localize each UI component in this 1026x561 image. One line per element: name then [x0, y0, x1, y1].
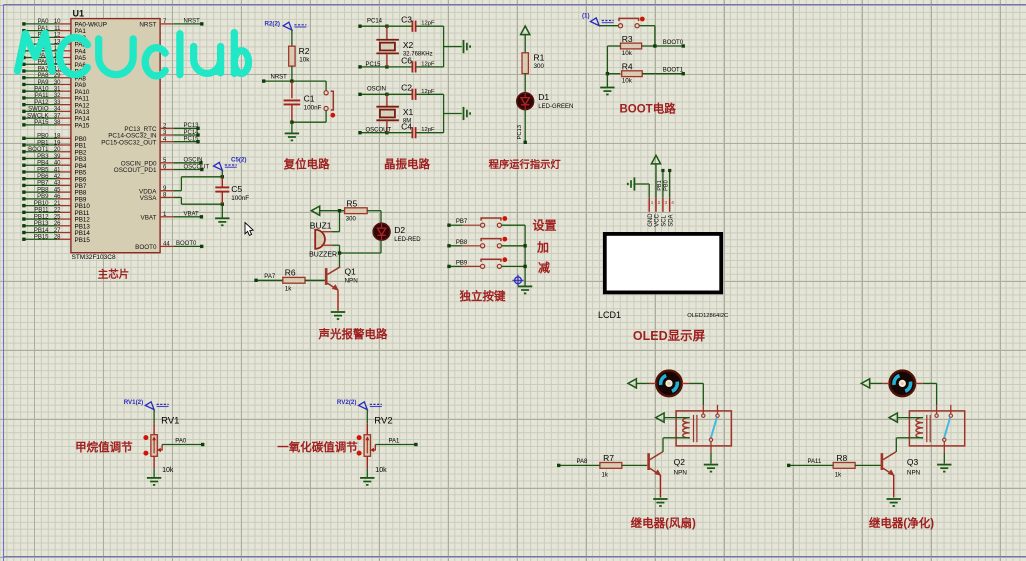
svg-text:R6: R6: [285, 267, 296, 277]
svg-text:STM32F103C8: STM32F103C8: [72, 254, 116, 261]
svg-text:SWDIO: SWDIO: [28, 107, 49, 113]
svg-text:R8: R8: [836, 453, 847, 463]
svg-text:46: 46: [54, 194, 61, 200]
svg-text:BUZ1: BUZ1: [310, 220, 332, 230]
svg-text:OSCOUT: OSCOUT: [366, 128, 392, 134]
svg-text:NPN: NPN: [907, 470, 921, 477]
svg-text:PA11: PA11: [808, 459, 822, 465]
svg-text:C6: C6: [401, 56, 412, 66]
svg-text:加: 加: [536, 239, 549, 254]
svg-text:12pF: 12pF: [421, 127, 435, 133]
svg-text:LED-GREEN: LED-GREEN: [538, 104, 573, 110]
svg-text:OLED12864I2C: OLED12864I2C: [687, 313, 728, 319]
svg-text:PB9: PB9: [456, 260, 468, 266]
svg-text:C1: C1: [304, 94, 315, 104]
svg-text:10k: 10k: [375, 467, 387, 474]
svg-text:10k: 10k: [162, 467, 174, 474]
svg-text:PA7: PA7: [264, 274, 276, 280]
svg-text:PB12: PB12: [34, 214, 49, 220]
svg-text:12pF: 12pF: [421, 61, 435, 67]
svg-text:PB6: PB6: [37, 174, 49, 180]
svg-text:10k: 10k: [622, 50, 633, 57]
svg-text:28: 28: [54, 235, 61, 241]
svg-text:22: 22: [54, 208, 61, 214]
svg-text:PC15: PC15: [184, 137, 200, 143]
svg-text:NPN: NPN: [345, 278, 359, 285]
svg-text:PB3: PB3: [37, 154, 49, 160]
svg-text:PA1: PA1: [389, 439, 401, 445]
svg-text:PC14: PC14: [184, 130, 200, 136]
svg-text:18: 18: [54, 134, 61, 140]
svg-text:PC13: PC13: [517, 125, 523, 140]
svg-text:LED-RED: LED-RED: [394, 237, 421, 243]
svg-text:PB14: PB14: [34, 228, 49, 234]
svg-text:21: 21: [54, 201, 61, 207]
svg-text:继电器(风扇): 继电器(风扇): [631, 516, 696, 530]
svg-text:D2: D2: [394, 225, 405, 235]
svg-text:BOOT0: BOOT0: [176, 241, 197, 247]
svg-text:R1: R1: [534, 52, 545, 62]
svg-text:31: 31: [54, 87, 61, 93]
svg-text:PC15: PC15: [366, 62, 382, 68]
svg-text:PB4: PB4: [37, 161, 49, 167]
svg-text:PB15: PB15: [75, 237, 91, 244]
svg-text:NRST: NRST: [184, 19, 201, 25]
svg-text:PB13: PB13: [34, 221, 49, 227]
svg-text:BOOT0: BOOT0: [135, 244, 157, 251]
svg-text:程序运行指示灯: 程序运行指示灯: [489, 158, 562, 171]
svg-text:PB8: PB8: [456, 240, 468, 246]
svg-text:PB15: PB15: [34, 235, 49, 241]
svg-text:4: 4: [671, 200, 674, 205]
svg-text:PA8: PA8: [577, 459, 589, 465]
svg-text:1k: 1k: [285, 286, 293, 293]
svg-text:40: 40: [54, 161, 61, 167]
svg-text:33: 33: [54, 100, 61, 106]
svg-text:PA11: PA11: [35, 93, 49, 99]
svg-text:R5: R5: [346, 198, 357, 208]
svg-text:43: 43: [54, 181, 61, 187]
svg-text:300: 300: [346, 217, 357, 223]
svg-text:3: 3: [665, 200, 668, 205]
svg-text:PB11: PB11: [34, 208, 49, 214]
svg-text:D1: D1: [538, 92, 549, 102]
svg-text:NPN: NPN: [674, 470, 688, 477]
svg-text:PB1: PB1: [37, 140, 49, 146]
svg-text:BOOT电路: BOOT电路: [619, 102, 676, 116]
svg-text:20: 20: [54, 147, 61, 153]
svg-text:PA12: PA12: [34, 100, 49, 106]
svg-text:PA0: PA0: [38, 19, 50, 25]
svg-text:100nF: 100nF: [231, 195, 249, 202]
svg-text:PA8: PA8: [38, 73, 50, 79]
svg-text:2: 2: [658, 200, 661, 205]
svg-text:12pF: 12pF: [421, 89, 435, 95]
svg-text:继电器(净化): 继电器(净化): [869, 516, 934, 530]
svg-text:PB8: PB8: [37, 187, 49, 193]
svg-text:PA7: PA7: [38, 66, 50, 72]
svg-text:RV2(2): RV2(2): [337, 399, 357, 406]
svg-text:VSSA: VSSA: [140, 195, 158, 202]
svg-text:PC14: PC14: [367, 18, 383, 24]
svg-text:VCC: VCC: [655, 213, 661, 226]
svg-text:独立按键: 独立按键: [460, 289, 506, 303]
svg-text:Q1: Q1: [345, 267, 357, 277]
svg-text:晶振电路: 晶振电路: [384, 157, 430, 171]
svg-text:45: 45: [54, 187, 61, 193]
svg-text:29: 29: [54, 73, 61, 79]
svg-text:Q3: Q3: [907, 457, 919, 467]
svg-text:R2(2): R2(2): [265, 20, 280, 27]
svg-text:BUZZER: BUZZER: [309, 252, 337, 259]
svg-text:PB7: PB7: [37, 181, 49, 187]
svg-text:PC15-OSC32_OUT: PC15-OSC32_OUT: [101, 139, 156, 146]
svg-text:VBAT: VBAT: [141, 214, 157, 221]
svg-text:R2: R2: [299, 46, 310, 56]
svg-text:SWCLK: SWCLK: [27, 113, 48, 119]
svg-text:25: 25: [54, 214, 61, 220]
svg-text:X1: X1: [403, 107, 414, 117]
svg-text:X2: X2: [403, 40, 414, 50]
svg-text:PB0: PB0: [664, 180, 670, 191]
svg-text:C3: C3: [401, 14, 412, 24]
svg-text:OSCOUT_PD1: OSCOUT_PD1: [114, 167, 157, 174]
svg-text:300: 300: [534, 63, 545, 70]
svg-text:LCD1: LCD1: [598, 310, 621, 320]
svg-text:PB0: PB0: [37, 134, 49, 140]
svg-text:C2: C2: [401, 82, 412, 92]
svg-text:12pF: 12pF: [421, 21, 435, 27]
svg-text:SDA: SDA: [668, 214, 674, 226]
svg-text:27: 27: [54, 228, 61, 234]
svg-text:U1: U1: [73, 9, 85, 19]
svg-text:复位电路: 复位电路: [283, 157, 330, 171]
svg-text:OSCOUT: OSCOUT: [184, 164, 210, 170]
svg-text:主芯片: 主芯片: [98, 268, 130, 281]
svg-text:减: 减: [538, 260, 550, 275]
svg-text:10: 10: [54, 19, 61, 25]
svg-text:12: 12: [54, 33, 61, 39]
svg-text:PB9: PB9: [37, 194, 49, 200]
svg-text:BOOT0: BOOT0: [663, 40, 684, 46]
svg-text:34: 34: [54, 107, 61, 113]
svg-text:26: 26: [54, 221, 61, 227]
svg-text:SCL: SCL: [662, 214, 668, 226]
svg-text:PA15: PA15: [34, 120, 49, 126]
svg-text:44: 44: [163, 242, 170, 248]
svg-text:PB10: PB10: [34, 201, 49, 207]
svg-text:37: 37: [54, 113, 61, 119]
svg-text:设置: 设置: [532, 218, 556, 233]
svg-text:PB5: PB5: [37, 167, 49, 173]
svg-text:PA15: PA15: [75, 122, 90, 129]
svg-text:R4: R4: [622, 61, 633, 71]
svg-text:一氧化碳值调节: 一氧化碳值调节: [277, 440, 358, 454]
svg-text:PC13: PC13: [184, 123, 200, 129]
svg-text:BOOT1: BOOT1: [28, 147, 49, 153]
svg-text:C5: C5: [231, 184, 242, 194]
svg-text:1: 1: [651, 200, 654, 205]
svg-text:1k: 1k: [602, 473, 609, 479]
svg-text:NRST: NRST: [139, 22, 156, 29]
svg-text:38: 38: [54, 120, 61, 126]
svg-text:19: 19: [54, 140, 61, 146]
svg-text:Q2: Q2: [674, 457, 686, 467]
svg-text:NRST: NRST: [271, 75, 288, 81]
svg-text:C4: C4: [401, 121, 412, 131]
svg-text:PA9: PA9: [38, 80, 50, 86]
svg-text:30: 30: [54, 80, 61, 86]
svg-text:39: 39: [54, 154, 61, 160]
svg-text:42: 42: [54, 174, 61, 180]
svg-text:41: 41: [54, 167, 61, 173]
svg-text:100nF: 100nF: [304, 105, 322, 112]
svg-text:甲烷值调节: 甲烷值调节: [75, 440, 133, 454]
svg-text:OSCIN: OSCIN: [184, 158, 203, 164]
svg-text:1k: 1k: [835, 473, 842, 479]
svg-text:10k: 10k: [622, 78, 633, 85]
svg-text:OLED显示屏: OLED显示屏: [633, 329, 706, 343]
svg-text:RV1: RV1: [161, 416, 179, 427]
svg-text:32: 32: [54, 93, 61, 99]
svg-text:11: 11: [54, 26, 61, 32]
svg-text:OSCIN: OSCIN: [367, 86, 386, 92]
svg-text:(1): (1): [582, 13, 590, 20]
svg-text:PA0: PA0: [175, 439, 187, 445]
svg-text:R3: R3: [622, 34, 633, 44]
svg-text:RV2: RV2: [374, 416, 392, 427]
svg-text:声光报警电路: 声光报警电路: [318, 327, 388, 341]
svg-text:PB7: PB7: [456, 219, 468, 225]
svg-text:VBAT: VBAT: [184, 212, 200, 218]
svg-text:R7: R7: [603, 453, 614, 463]
svg-text:C5(2): C5(2): [231, 157, 246, 164]
svg-text:BOOT1: BOOT1: [663, 68, 684, 74]
svg-text:10k: 10k: [299, 57, 310, 64]
svg-text:RV1(2): RV1(2): [124, 399, 144, 406]
svg-text:PB1: PB1: [657, 180, 663, 191]
svg-text:PA10: PA10: [34, 87, 49, 93]
svg-text:GND: GND: [648, 213, 654, 227]
